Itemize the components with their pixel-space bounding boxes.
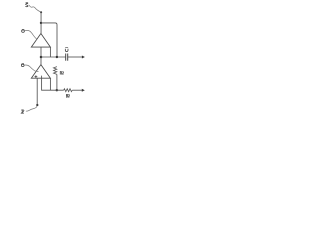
leader from label S to top node — [29, 5, 41, 12]
junction dot on top wire — [40, 22, 42, 24]
wire: vertical from top node to U1 apex — [40, 12, 42, 33]
leader from bottom node to label Z — [26, 106, 37, 111]
wire: R1 to bottom arrow — [72, 89, 82, 91]
op-amp U1 (triangle, apex up) — [31, 34, 50, 48]
node dot (top) — [40, 11, 42, 13]
capacitor C1 plates — [65, 54, 67, 61]
node label S (top-left, with overbar) — [26, 2, 29, 7]
wire: U2 left input lead down to bottom node — [36, 78, 38, 104]
arrow out (mid right) — [82, 56, 85, 59]
wire: U1 right-corner lead down to output line — [49, 47, 51, 57]
wire: capacitor to output arrow — [68, 56, 83, 58]
R2 value label — [60, 72, 63, 75]
wire: top horizontal to right rail, corner down — [41, 23, 57, 57]
junction dot at U1 output — [40, 56, 43, 59]
resistor R1 (horizontal zigzag) — [64, 89, 73, 92]
wire: U2 right-corner lead down to bottom rail — [49, 78, 51, 90]
wire: U1 output down to node / U2 apex — [40, 47, 42, 65]
wire: U2 right input lead down and right along bottom rail — [42, 76, 64, 91]
node dot (bottom) — [36, 104, 38, 106]
resistor R2 (vertical sawtooth on rail) — [54, 67, 57, 75]
U2 label (boxed, with overbar) — [21, 63, 24, 66]
junction dot on bottom rail — [56, 89, 58, 91]
op-amp U2 (triangle, apex up) — [31, 65, 50, 79]
wire: rail from R2 down to bottom junction — [56, 74, 58, 90]
R1 value label — [66, 94, 69, 97]
U1 label (boxed, with overbar) — [22, 29, 25, 32]
leader from U2 label into triangle — [25, 65, 39, 71]
U2 plus input mark — [35, 75, 38, 78]
leader from U1 label to triangle left edge — [25, 30, 37, 39]
node label Z (bottom-left, with overbar) — [21, 110, 24, 114]
wire: horizontal output line to capacitor — [41, 56, 66, 58]
junction dot on right rail crossing — [56, 56, 58, 58]
capacitor C1 label (rotated: bar + C) — [65, 47, 68, 51]
arrow out (bottom right) — [82, 89, 85, 92]
